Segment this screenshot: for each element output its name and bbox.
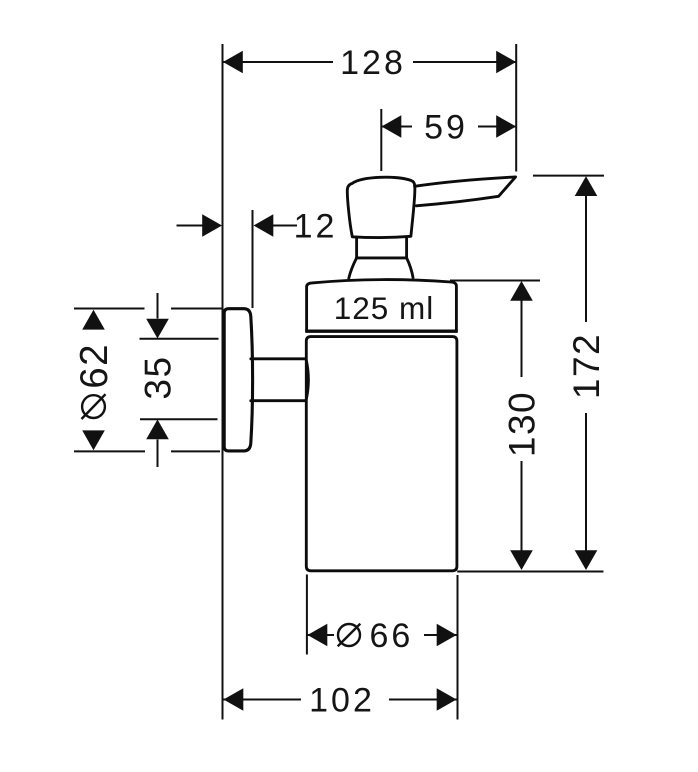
pump skirt right edge <box>407 258 413 278</box>
dim D62 up arrow <box>82 310 105 330</box>
dim D62 top boundary line left segment <box>74 308 145 310</box>
dim 102 left arrow <box>224 688 244 711</box>
dim D62 down arrow <box>82 430 105 450</box>
bracket arm bottom edge <box>251 399 306 402</box>
dim D66 text mask <box>334 619 424 651</box>
dim 130 down arrow <box>510 550 533 570</box>
plate-front extension line (right of 12) <box>252 210 254 308</box>
svg-text:128: 128 <box>340 44 406 82</box>
dim 172 line upper segment <box>585 196 587 323</box>
dim 128 right arrow <box>496 51 516 74</box>
dim 102 right arrow <box>437 688 457 711</box>
pump neck bottom line <box>357 256 407 259</box>
dim 172 label <box>566 333 607 399</box>
dim 128 left arrow <box>223 51 243 74</box>
dim 130 label <box>502 391 543 457</box>
wall line <box>222 44 224 720</box>
dim 128 text mask <box>333 45 413 79</box>
svg-text:59: 59 <box>424 109 468 147</box>
dim 102 line <box>224 699 457 701</box>
dim 172 up arrow <box>575 176 598 196</box>
dim 12 left tail line <box>177 225 204 227</box>
svg-text:66: 66 <box>370 617 414 655</box>
bottle body <box>306 337 457 571</box>
pump neck right edge <box>405 237 408 258</box>
dim 130 up arrow <box>510 281 533 301</box>
pump spout <box>415 177 516 206</box>
dim 35 upper tail line <box>157 293 159 319</box>
dim D62 bottom boundary line left segment <box>74 450 145 452</box>
dim 102 text mask <box>301 683 389 716</box>
bottle cap outline <box>307 280 457 332</box>
pump-top extension line (left of 59) <box>380 109 382 171</box>
dim 35 up arrow (outside, pointing up) <box>146 420 169 440</box>
dim 35 lower tail line <box>157 440 159 468</box>
svg-text:172: 172 <box>566 333 607 399</box>
svg-text:102: 102 <box>309 682 375 720</box>
bracket arm end cap bulge <box>306 359 308 401</box>
dim 12 right arrow (outside, pointing left) <box>254 214 274 237</box>
wall plate <box>224 309 252 451</box>
dim 130 line upper segment <box>521 300 523 377</box>
dim 172 line lower segment <box>585 413 587 551</box>
dim 35 label <box>138 355 179 399</box>
dim D62 label <box>73 343 116 419</box>
bottle-left extension line <box>306 575 308 655</box>
pump knob <box>347 177 415 237</box>
svg-text:35: 35 <box>138 355 179 399</box>
dim 128 line <box>223 61 516 63</box>
dim 172 top boundary line <box>533 175 604 177</box>
pump neck left edge <box>355 237 358 258</box>
dim 35 top boundary line <box>140 338 219 340</box>
dim 59 text mask <box>412 110 478 143</box>
dim 59 left arrow <box>382 115 402 138</box>
dim 130 line lower segment <box>521 461 523 551</box>
dim D66 label <box>338 617 414 655</box>
dim D62 bottom boundary line right segment <box>171 450 220 452</box>
bottle cap thick bottom edge <box>305 330 457 333</box>
dim 35 down arrow (outside, pointing down) <box>146 319 169 339</box>
dim 35 bottom boundary line <box>140 418 218 420</box>
tip-plane extension line (right of 128/59) <box>515 44 517 172</box>
bracket arm top edge <box>251 357 306 360</box>
dim D66 right arrow <box>437 624 457 647</box>
dim 12 left arrow (outside, pointing right) <box>202 214 222 237</box>
dim D66 left arrow <box>308 624 328 647</box>
dim 172 down arrow <box>575 550 598 570</box>
pump skirt left edge <box>349 258 357 278</box>
dim 130 top boundary line <box>450 280 540 282</box>
dim D66 line <box>308 634 457 636</box>
dim 59 right arrow <box>496 115 516 138</box>
dim 59 line <box>382 126 517 128</box>
svg-text:125 ml: 125 ml <box>334 290 435 326</box>
shared bottom boundary line for 130/172 <box>457 571 603 573</box>
dim 12 right tail line <box>273 225 297 227</box>
dim D62 top boundary line right segment <box>171 308 222 310</box>
svg-text:130: 130 <box>502 391 543 457</box>
svg-text:12: 12 <box>294 208 338 246</box>
svg-text:62: 62 <box>73 343 116 389</box>
bottle-right extension line <box>457 575 459 720</box>
